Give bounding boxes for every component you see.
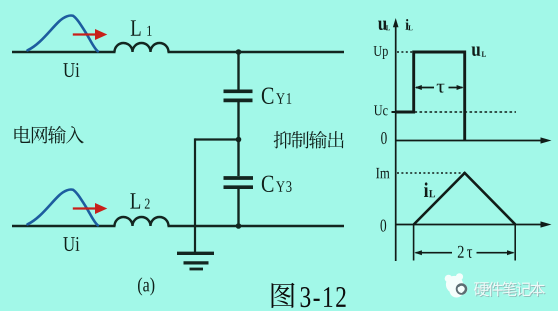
red arrow (bottom, surge direction) [73,203,108,214]
caption 图3-12 [272,283,295,308]
waveform trace uL (square pulse) [396,52,465,140]
axis label iL [406,19,409,30]
x-axis (bottom graph, 0 level) [395,224,546,226]
trace label iL [424,182,428,197]
inductor L2 [115,217,169,226]
net label: 抑制输出 (suppressed output) [274,131,344,149]
junction node: top wire / CY1 [236,49,242,55]
wire: top line, left segment [12,51,116,53]
watermark logo (panda) [445,273,468,297]
label L1 [131,20,152,35]
capacitor CY3 [224,178,254,187]
label Uc [374,105,388,115]
waveform trace iL (triangle) [414,173,516,225]
junction node: bottom wire / CY3 [236,223,242,229]
label L2 [130,193,149,208]
graph vertical axis (uL / iL) [395,23,397,261]
wire: bottom line, left segment [12,225,116,227]
wire: top line, right segment [168,51,345,53]
wire: earth branch horizontal [195,138,239,140]
red arrow (top, surge direction) [73,29,108,40]
wire: bottom line, right segment [168,225,345,227]
surge pulse Ui (top) [28,16,98,52]
dotted line at Im level [397,172,464,174]
wire: CY3 bottom lead [237,189,239,226]
junction node: midpoint / earth tap [236,137,242,143]
Uc tick on axis [392,111,396,113]
net label: 电网输入 (mains input) [14,126,83,144]
capacitor CY1 [224,91,253,100]
wire: CY1 top lead [237,52,239,90]
label 0 (top graph) [381,132,387,144]
dotted line at Up level [397,51,413,53]
x-axis (top graph, 0 level) [395,140,546,142]
label Up [374,46,388,59]
axis label uL [378,21,387,30]
inductor L1 [115,43,169,52]
trace label uL [472,47,481,56]
wire: earth branch vertical [194,138,196,252]
subfigure label (a) [138,277,154,295]
tau width annotation [416,87,463,89]
ground (earth) symbol [177,253,214,269]
watermark text 硬件笔记本 [475,282,546,297]
dotted line at Uc level [415,111,517,113]
label Im [376,168,390,178]
label CY3 [262,176,292,192]
wire: CY1 bottom to CY3 top [237,102,239,176]
label 0 (bottom graph) [381,220,387,232]
label Ui (top) [63,63,79,77]
label CY1 [262,87,291,103]
surge pulse Ui (bottom) [28,190,98,226]
label Ui (bottom) [63,237,79,251]
2-tau width annotation [414,224,516,261]
